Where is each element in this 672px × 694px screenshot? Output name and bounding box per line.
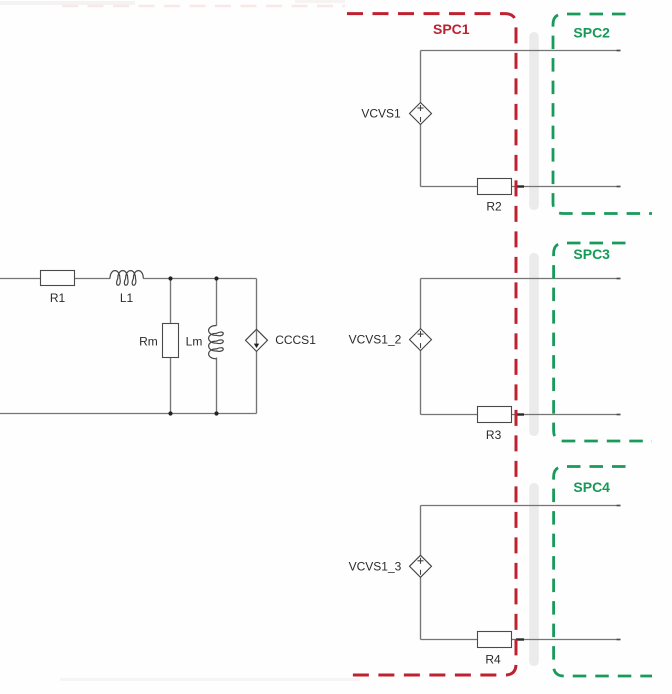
resistor R4 [478,632,512,667]
wire: block2 top [421,278,621,280]
inductor Lm [186,326,224,359]
wire: L1 to node and corner down [143,278,256,280]
svg-text:VCVS1_3: VCVS1_3 [349,560,402,574]
wire: block2 bottom [421,414,621,416]
node junction: Lm top [214,276,218,280]
port tick block2 [516,413,524,415]
svg-text:SPC3: SPC3 [573,246,610,262]
svg-text:R3: R3 [486,428,502,442]
faint artifact top strip [0,1,135,5]
svg-text:R1: R1 [50,291,66,305]
wire: block3 top [421,505,621,507]
port tick block1 [516,185,524,187]
svg-text:SPC1: SPC1 [433,21,470,37]
boundary SPC1 (red dashed) [347,14,516,675]
wire: Lm branch vertical [216,279,218,326]
svg-text:SPC2: SPC2 [573,25,610,41]
wire: bottom return [0,413,257,415]
source VCVS1_2 [349,329,432,351]
inductor L1 [110,271,143,305]
connector bar 1 [529,32,539,210]
wire: block1 top [421,50,621,52]
svg-text:SPC4: SPC4 [573,479,610,495]
resistor R3 [478,407,512,442]
connector bar 2 [529,253,539,436]
boundary SPC2 (green dashed) [553,14,652,214]
source VCVS1_3 [349,555,432,577]
boundary SPC3 (green dashed) [554,243,652,441]
wire: left input top [0,278,41,280]
wire: CCCS branch vertical [256,279,258,330]
current source CCCS1 [246,329,317,351]
wire: block3 left vertical [420,506,422,556]
svg-text:R4: R4 [485,653,501,667]
svg-text:L1: L1 [120,291,134,305]
connector bar 3 [529,483,539,666]
node junction: Rm bottom [168,411,172,415]
svg-text:Lm: Lm [186,335,203,349]
wire end tips [617,50,621,52]
svg-text:VCVS1: VCVS1 [361,106,401,120]
svg-text:VCVS1_2: VCVS1_2 [349,333,402,347]
node junction: Rm top [168,276,172,280]
port tick block3 [516,638,524,640]
wire: Rm branch vertical [170,279,172,324]
wire: block1 left vertical [420,51,422,103]
source VCVS1 [361,103,431,125]
svg-text:R2: R2 [486,199,502,213]
resistor R1 [41,271,75,306]
svg-text:CCCS1: CCCS1 [275,333,316,347]
resistor Rm [139,324,178,358]
resistor R2 [478,179,512,214]
faint artifact bottom strip [60,678,360,681]
boundary SPC4 (green dashed) [554,467,652,677]
wire: block1 bottom [421,186,621,188]
svg-text:Rm: Rm [139,335,158,349]
wire: block3 bottom [421,639,621,641]
node junction: Lm bottom [214,411,218,415]
wire: block2 left vertical [420,279,422,329]
wire: R1 to L1 [75,278,111,280]
